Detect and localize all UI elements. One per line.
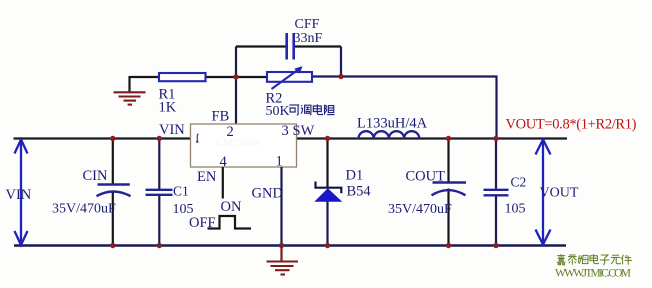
diode D1: [314, 139, 371, 246]
svg-text:CFF: CFF: [295, 17, 320, 32]
svg-text:35V/470uF: 35V/470uF: [388, 202, 452, 217]
svg-text:50K: 50K: [266, 104, 290, 119]
ground bottom center: [267, 246, 299, 275]
svg-text:VOUT: VOUT: [540, 186, 579, 201]
capacitor C1: [146, 139, 194, 246]
svg-text:B54: B54: [347, 184, 372, 200]
svg-text:C2: C2: [511, 175, 527, 190]
capacitor CFF: [287, 17, 323, 60]
svg-text:2: 2: [227, 124, 234, 140]
wire feedback top rail left (ground to R1): [130, 76, 160, 78]
svg-text:SW: SW: [293, 123, 315, 139]
svg-text:L133uH/4A: L133uH/4A: [357, 116, 428, 132]
potentiometer R2: [266, 66, 313, 119]
wire GND stub (pin 1): [280, 167, 282, 246]
wire R2 to feedback corner: [312, 75, 498, 77]
wire bottom ground rail: [14, 244, 566, 246]
svg-text:VIN: VIN: [159, 122, 185, 138]
wire R1 ground stem: [128, 76, 130, 92]
svg-text:1K: 1K: [159, 100, 177, 116]
svg-text:GND: GND: [252, 186, 283, 202]
svg-text:LM2596S: LM2596S: [216, 137, 261, 149]
svg-text:105: 105: [505, 202, 526, 217]
svg-text:105: 105: [173, 202, 194, 217]
inductor L1: [357, 116, 428, 139]
svg-text:COUT: COUT: [406, 169, 446, 185]
wire VIN rail: [14, 137, 191, 139]
R2 chinese label 可调电阻: [289, 104, 334, 115]
op-amp U1 regulator box: [191, 124, 297, 167]
svg-text:WWW.JTMIC.COM: WWW.JTMIC.COM: [555, 268, 631, 280]
pulse waveform: [208, 216, 252, 229]
wire feedback vertical to VOUT rail: [495, 77, 497, 139]
wire CFF right: [295, 45, 341, 47]
VIN arrow: [15, 140, 28, 246]
capacitor COUT: [388, 139, 466, 246]
svg-text:EN: EN: [197, 169, 217, 185]
wire EN stub (pin 4): [222, 167, 224, 199]
wire FB vertical (pin 2): [235, 47, 237, 125]
svg-text:3: 3: [282, 123, 289, 139]
wire SW rail: [297, 137, 568, 139]
capacitor CIN: [52, 139, 131, 246]
svg-text:C1: C1: [173, 184, 189, 199]
node dots: [110, 74, 499, 248]
VOUT arrow: [536, 140, 551, 245]
watermark chinese 嘉泰姆电子元件: [557, 254, 632, 265]
svg-text:33nF: 33nF: [294, 31, 323, 46]
wire CFF left: [236, 45, 286, 47]
wire R1 to R2: [206, 76, 268, 78]
capacitor C2: [484, 139, 527, 246]
svg-text:CIN: CIN: [83, 168, 109, 184]
svg-text:FB: FB: [212, 109, 230, 125]
svg-text:VOUT=0.8*(1+R2/R1): VOUT=0.8*(1+R2/R1): [506, 117, 637, 133]
svg-text:D1: D1: [346, 168, 364, 184]
svg-text:VIN: VIN: [6, 187, 32, 203]
ground at R1: [114, 92, 146, 104]
wire CFF down to R2 wire: [340, 47, 342, 77]
svg-text:ON: ON: [221, 199, 242, 215]
svg-text:35V/470uF: 35V/470uF: [52, 202, 116, 217]
resistor R1: [159, 73, 206, 116]
